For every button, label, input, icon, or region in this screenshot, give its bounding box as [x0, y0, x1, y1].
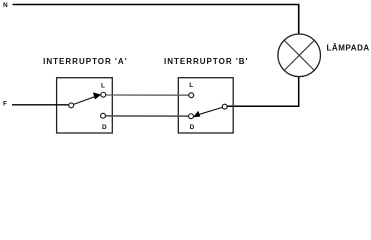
switch A arm	[74, 96, 96, 104]
wire L link	[106, 94, 189, 96]
switch A arrowhead	[93, 92, 101, 99]
switch A common terminal	[69, 103, 74, 108]
terminal B-D	[189, 114, 194, 119]
switch B common terminal	[222, 104, 227, 109]
wire F	[12, 104, 68, 106]
lamp DS1 cross	[284, 40, 314, 70]
svg-text:INTERRUPTOR 'B': INTERRUPTOR 'B'	[164, 57, 248, 66]
svg-text:N: N	[3, 2, 8, 9]
svg-text:D: D	[102, 124, 107, 131]
svg-text:L: L	[189, 82, 193, 89]
svg-text:F: F	[3, 100, 7, 107]
lamp DS1 circle	[278, 34, 321, 77]
terminal A-D	[101, 113, 106, 118]
svg-text:L: L	[101, 82, 105, 89]
switch B arrowhead	[193, 111, 200, 117]
wire N top	[13, 5, 299, 35]
terminal A-L	[101, 92, 106, 97]
interruptor B box	[178, 78, 233, 133]
svg-text:D: D	[190, 124, 195, 131]
wire lamp to switch B	[227, 77, 298, 107]
svg-text:LÂMPADA: LÂMPADA	[327, 44, 370, 53]
interruptor A box	[57, 78, 113, 133]
switch B arm	[197, 107, 223, 115]
terminal B-L	[189, 93, 194, 98]
svg-text:INTERRUPTOR 'A': INTERRUPTOR 'A'	[43, 57, 127, 66]
wire D link	[106, 115, 189, 117]
